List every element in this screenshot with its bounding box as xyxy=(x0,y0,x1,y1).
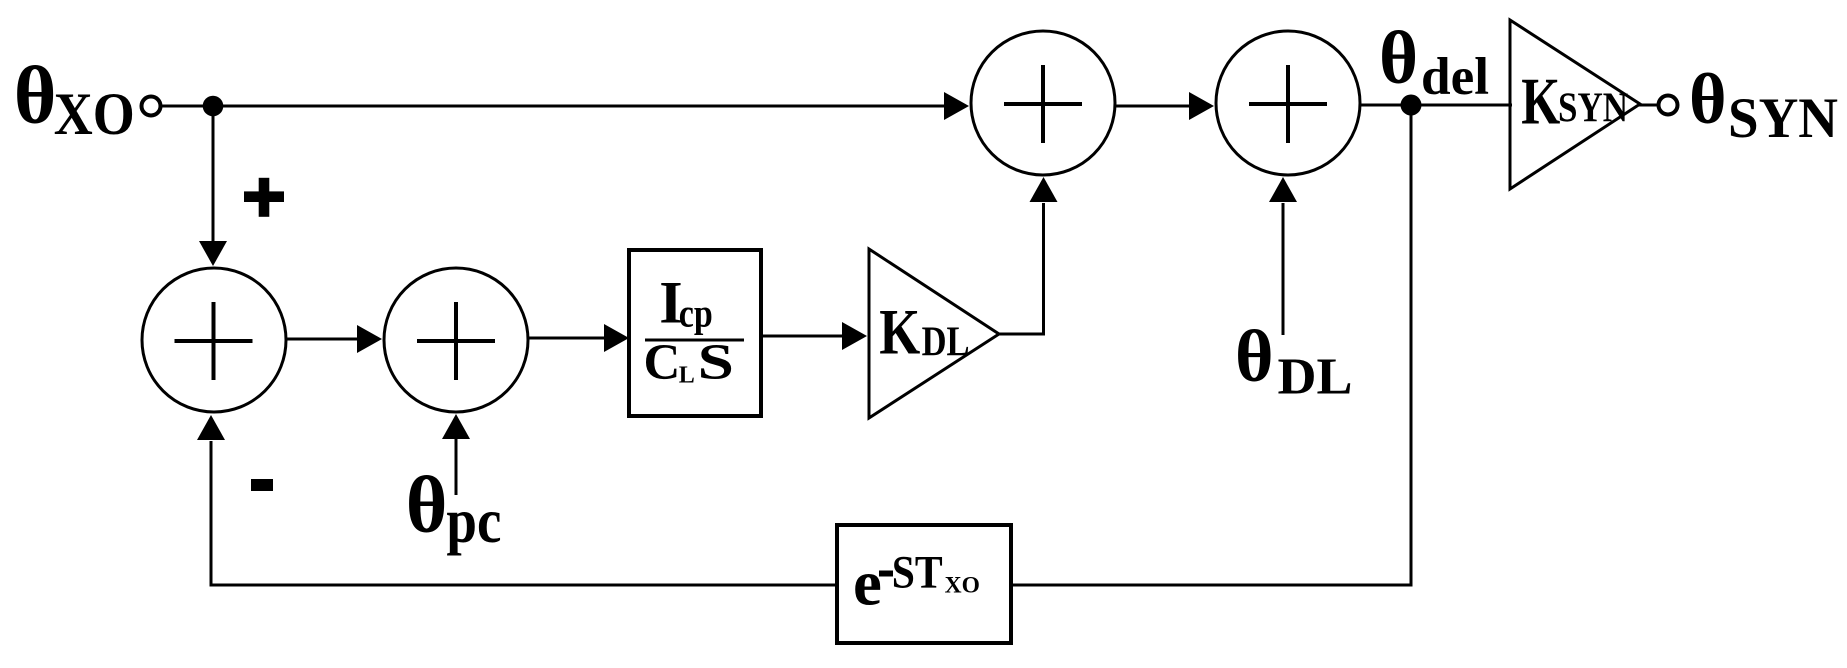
svg-text:θ: θ xyxy=(1689,59,1727,139)
arrowhead into amp K_DL xyxy=(842,322,867,350)
wire: terminal to top adder U3 xyxy=(162,105,946,108)
amp K_DL (gain triangle) xyxy=(869,249,999,418)
svg-text:DL: DL xyxy=(1278,348,1353,405)
svg-text:ST: ST xyxy=(892,547,943,599)
node theta_DL label xyxy=(1235,316,1353,405)
svg-text:cp: cp xyxy=(679,290,713,335)
plus sign label at U1 top input xyxy=(244,178,284,217)
svg-text:S: S xyxy=(698,334,734,391)
arrowhead into adder U3 bottom xyxy=(1030,177,1058,202)
node theta_SYN output label xyxy=(1689,59,1838,150)
wire: block B2 output left and up into U1 (feedback) xyxy=(211,441,835,585)
adder U2 (summing junction, lower middle) xyxy=(384,268,528,412)
arrowhead into adder U4 xyxy=(1189,92,1214,120)
arrowhead into adder U1 top xyxy=(199,241,227,266)
junction node A (dot on theta_XO line) xyxy=(203,96,224,117)
adder U1 (summing junction, lower left) xyxy=(142,268,286,412)
arrowhead into adder U2 bottom xyxy=(442,414,470,439)
svg-text:L: L xyxy=(679,363,695,389)
svg-text:XO: XO xyxy=(54,81,135,147)
svg-text:SYN: SYN xyxy=(1558,85,1628,131)
wire: U4 to amp K_SYN xyxy=(1360,104,1512,107)
wire: theta_DL up into U4 xyxy=(1282,203,1285,335)
wire: U1 to U2 xyxy=(286,338,359,341)
svg-text:K: K xyxy=(879,297,920,369)
svg-text:K: K xyxy=(1521,65,1560,139)
wire: junction A down to adder U1 xyxy=(212,106,215,242)
value label e^-ST_XO xyxy=(853,547,980,620)
wire: theta_pc up into U2 xyxy=(455,438,458,495)
fraction bar xyxy=(645,339,744,342)
arrowhead into adder U2 xyxy=(357,325,382,353)
arrowhead into adder U1 bottom xyxy=(197,415,225,440)
wire: U2 to block B1 xyxy=(528,337,606,340)
value label Icp (numerator) xyxy=(659,270,713,336)
value label K_SYN xyxy=(1521,65,1628,139)
svg-text:del: del xyxy=(1421,48,1489,106)
arrowhead into adder U4 bottom xyxy=(1269,177,1297,202)
arrowhead into block B1 xyxy=(604,324,629,352)
amp K_SYN (gain triangle) xyxy=(1510,20,1640,189)
block B1: Icp/(CL s) charge-pump integrator box xyxy=(629,250,761,416)
svg-text:C: C xyxy=(644,335,681,391)
svg-text:θ: θ xyxy=(1235,316,1274,398)
svg-text:θ: θ xyxy=(1379,17,1418,100)
input terminal (open circle) xyxy=(142,97,161,116)
value label CL s (denominator) xyxy=(644,334,734,391)
svg-text:pc: pc xyxy=(446,486,501,556)
arrowhead into adder U3 xyxy=(944,92,969,120)
block B2: delay e^-sTxo box xyxy=(837,525,1011,643)
svg-text:e: e xyxy=(853,548,882,620)
node theta_pc label xyxy=(406,461,502,556)
wire: amp K_DL output up to adder U3 xyxy=(997,203,1044,334)
output terminal (open circle) xyxy=(1659,96,1678,115)
svg-text:θ: θ xyxy=(406,461,448,549)
svg-text:DL: DL xyxy=(922,319,970,365)
wire: feedback from theta_del node down and left to block B2 xyxy=(1013,106,1411,585)
value label K_DL xyxy=(879,297,969,369)
svg-text:XO: XO xyxy=(945,572,980,598)
minus sign label at U1 bottom input xyxy=(251,479,273,491)
node theta_del label xyxy=(1379,17,1489,106)
junction node theta_del (dot) xyxy=(1401,95,1422,116)
adder U3 (summing junction, top middle) xyxy=(971,31,1115,175)
wire: K_SYN apex to output terminal xyxy=(1638,104,1659,107)
adder U4 (summing junction, top right) xyxy=(1216,31,1360,175)
wire: U3 to U4 xyxy=(1115,105,1191,108)
node theta_XO input label xyxy=(14,50,135,147)
svg-text:θ: θ xyxy=(14,50,57,141)
svg-text:SYN: SYN xyxy=(1728,87,1838,150)
wire: block B1 to amp K_DL xyxy=(763,335,844,338)
